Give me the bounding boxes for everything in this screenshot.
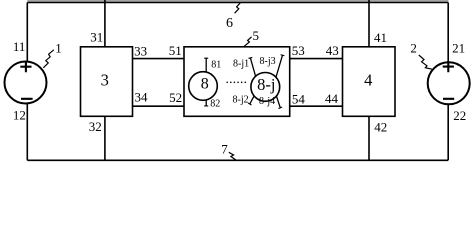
svg-text:33: 33 (134, 44, 147, 59)
svg-text:8-j3: 8-j3 (260, 56, 276, 67)
svg-text:8: 8 (201, 76, 209, 93)
svg-text:44: 44 (325, 91, 339, 106)
svg-text:8-j2: 8-j2 (233, 95, 249, 106)
svg-text:8-j: 8-j (257, 75, 275, 94)
svg-text:4: 4 (364, 70, 372, 89)
svg-text:2: 2 (410, 41, 417, 56)
svg-text:81: 81 (211, 60, 221, 71)
svg-text:6: 6 (226, 16, 233, 31)
svg-text:12: 12 (13, 108, 26, 123)
svg-text:53: 53 (292, 43, 305, 58)
svg-text:42: 42 (374, 120, 387, 135)
svg-text:32: 32 (89, 119, 102, 134)
svg-text:22: 22 (453, 108, 466, 123)
svg-text:1: 1 (55, 41, 62, 56)
svg-text:52: 52 (169, 90, 182, 105)
svg-text:7: 7 (221, 142, 228, 157)
svg-text:43: 43 (326, 43, 339, 58)
svg-text:51: 51 (169, 43, 182, 58)
svg-text:8-j1: 8-j1 (233, 59, 249, 70)
svg-text:3: 3 (101, 70, 109, 89)
svg-text:41: 41 (374, 30, 387, 45)
svg-text:54: 54 (292, 91, 306, 106)
svg-text:82: 82 (210, 98, 220, 109)
svg-text:21: 21 (452, 41, 465, 56)
svg-text:5: 5 (253, 28, 260, 43)
svg-text:11: 11 (13, 39, 26, 54)
svg-text:31: 31 (90, 29, 103, 44)
svg-text:8-j4: 8-j4 (259, 96, 275, 107)
svg-text:34: 34 (135, 90, 149, 105)
